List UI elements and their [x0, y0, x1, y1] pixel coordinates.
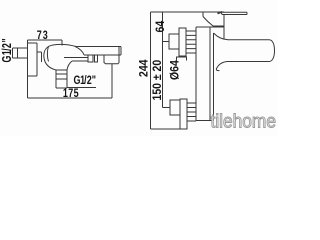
svg-text:64: 64	[155, 20, 168, 32]
shower outlet stack	[56, 70, 67, 88]
svg-text:Ø64: Ø64	[169, 59, 182, 80]
handle wedge	[203, 17, 224, 27]
spout	[214, 33, 275, 71]
Ø64 bracket	[177, 57, 187, 61]
upper pipe stub	[163, 41, 170, 43]
label G1/2" left (rotated)	[1, 38, 15, 62]
lower threaded nut	[187, 103, 196, 121]
lower escutcheon	[180, 99, 187, 129]
dimension 64 / 150±20 line	[162, 12, 164, 108]
svg-text:150 ± 20: 150 ± 20	[152, 60, 165, 101]
svg-text:2: 2	[1, 43, 15, 48]
lower pipe stub	[163, 107, 171, 109]
handle extension drop	[202, 12, 204, 17]
faucet body	[44, 44, 76, 70]
handle neck	[223, 14, 225, 39]
svg-text:1: 1	[1, 50, 15, 55]
svg-text:": "	[1, 38, 15, 42]
label G1/2" spout	[74, 75, 97, 87]
dimension 175 line	[28, 64, 113, 98]
under-handle step boxes	[88, 55, 98, 62]
dimension 244 line	[150, 12, 152, 129]
handle lever	[76, 47, 121, 56]
upper escutcheon	[179, 28, 186, 56]
svg-text:73: 73	[37, 29, 48, 43]
handle bar	[221, 12, 247, 14]
dimension 73 line	[28, 40, 63, 46]
svg-text:tilehome: tilehome	[211, 112, 277, 133]
spout lines	[64, 58, 88, 62]
svg-text:/: /	[1, 48, 15, 51]
svg-text:244: 244	[138, 59, 151, 77]
handle base bell	[75, 46, 84, 55]
body funnel to outlet	[67, 61, 72, 70]
lower eccentric union	[170, 100, 180, 115]
svg-text:G: G	[1, 56, 15, 63]
upper eccentric union	[169, 34, 179, 49]
wall plate	[28, 40, 38, 98]
body adapter step	[37, 52, 42, 62]
aerator box	[104, 55, 119, 64]
bottom extension line	[151, 128, 181, 130]
faucet body column	[196, 27, 224, 121]
inlet fitting G1/2	[13, 48, 28, 58]
upper threaded nut	[186, 31, 196, 53]
G1/2 label shelf	[67, 87, 96, 89]
svg-text:": "	[92, 75, 96, 87]
right view: top extension line	[151, 11, 225, 13]
dimension tick at handle	[218, 12, 223, 14]
svg-text:175: 175	[63, 87, 79, 101]
